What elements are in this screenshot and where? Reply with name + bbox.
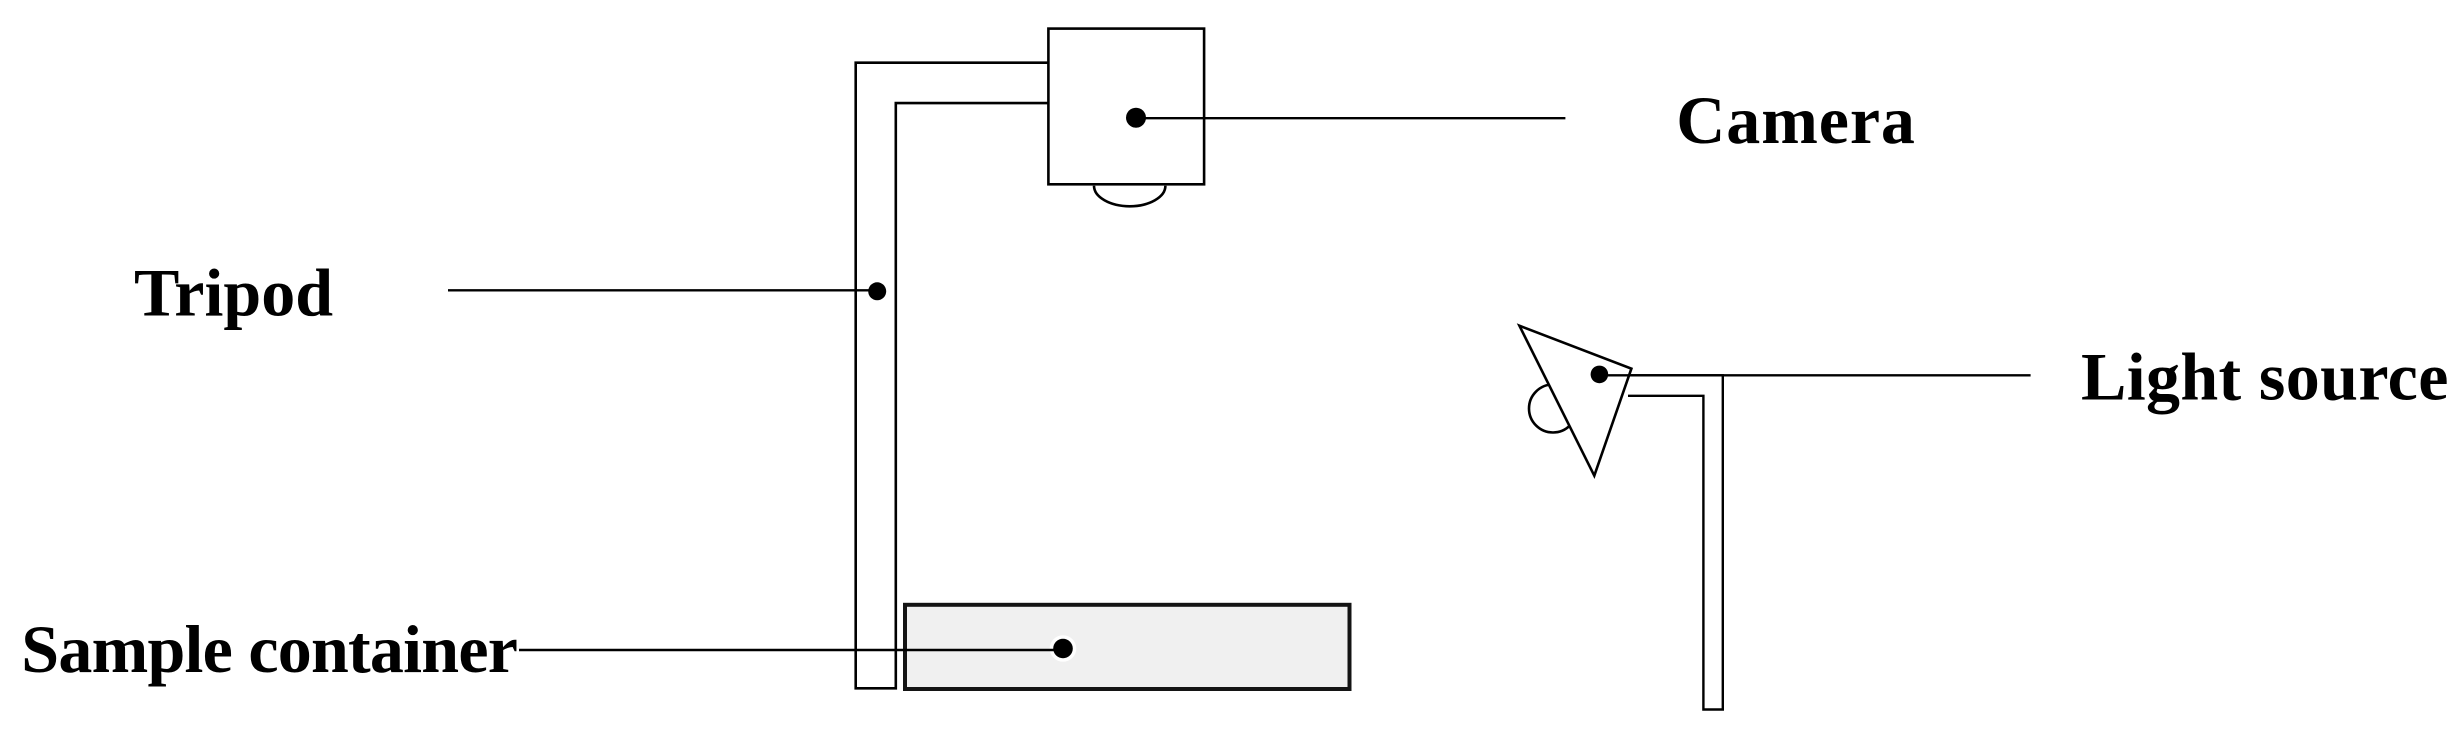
svg-text:Tripod: Tripod <box>134 254 333 330</box>
svg-text:Sample container: Sample container <box>21 611 517 687</box>
svg-text:Light source: Light source <box>2081 339 2448 415</box>
svg-text:Camera: Camera <box>1676 82 1916 158</box>
